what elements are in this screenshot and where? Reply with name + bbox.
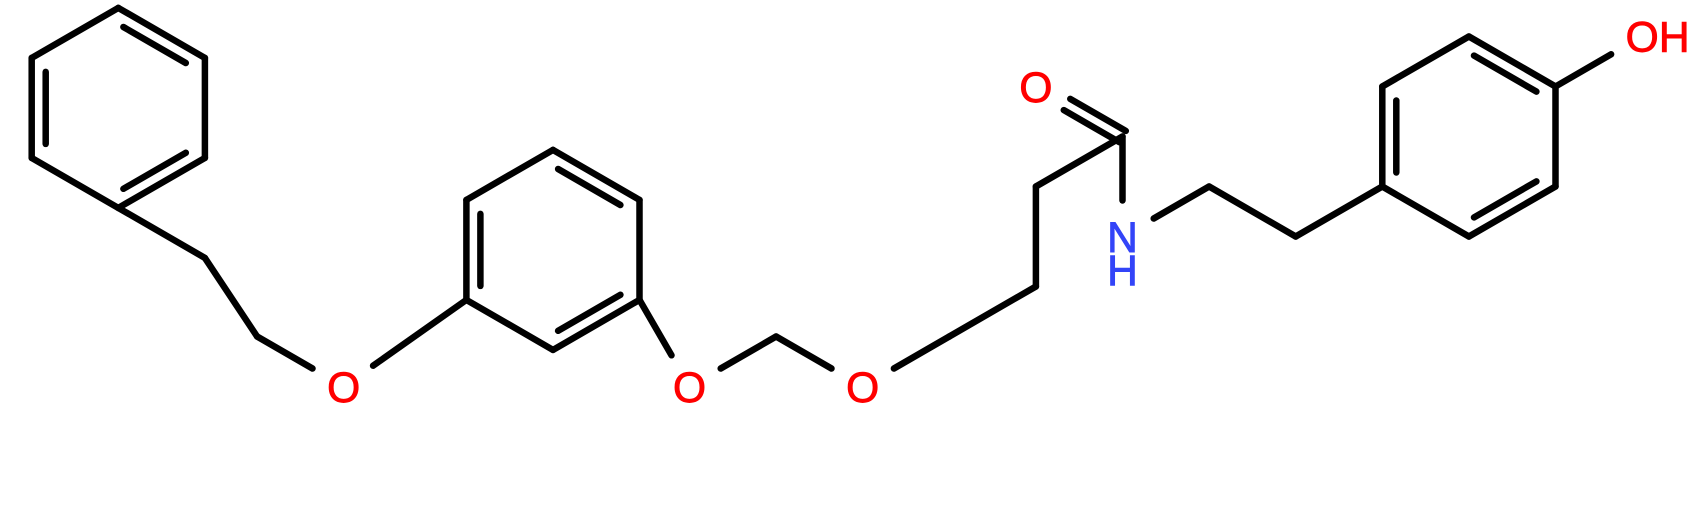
bond CH2-C(aryl) [1296, 187, 1383, 237]
bond aryl-O1 [640, 300, 672, 355]
bond CH2-CH2 [205, 258, 257, 337]
atom label O (ether, left) [327, 365, 360, 412]
bond C(=O)-N (amide) [1119, 137, 1126, 201]
bond CH2-CH2 [949, 287, 1036, 337]
atom label O (aryl ether) [673, 365, 706, 412]
bond CH2-CH2 [1209, 187, 1296, 237]
double bond C=O (carbonyl) [1064, 99, 1126, 142]
benzene ring (4-hydroxyphenyl, right) [1382, 37, 1555, 237]
bond phenyl-CH2 [118, 208, 205, 258]
svg-text:O: O [1626, 15, 1659, 62]
atom label O (acetal ether) [846, 365, 879, 412]
bond O2-CH2 [894, 337, 949, 369]
bond N-CH2 [1154, 187, 1209, 219]
svg-text:O: O [846, 365, 879, 412]
atom label OH (phenol) [1626, 15, 1690, 62]
svg-text:O: O [1019, 65, 1052, 112]
bond CH2-O (ether) [257, 337, 312, 369]
atom label O (carbonyl) [1019, 65, 1052, 112]
bond CH2-C(=O) [1036, 137, 1123, 187]
benzene ring (middle, 1,3-disubstituted) [466, 150, 639, 350]
bond O1-CH2 (acetal apex) [721, 337, 776, 369]
bond CH2-CH2 (vertical) [1033, 187, 1040, 287]
bond CH2-O2 [776, 337, 831, 369]
atom label N-H (amide) [1107, 215, 1138, 295]
benzene ring (terminal phenyl, left) [32, 8, 205, 208]
bond O-C(aryl) to middle ring [373, 300, 466, 366]
svg-text:O: O [327, 365, 360, 412]
svg-text:H: H [1659, 15, 1690, 62]
svg-text:O: O [673, 365, 706, 412]
svg-text:H: H [1107, 248, 1138, 295]
bond aryl-OH [1556, 54, 1612, 86]
